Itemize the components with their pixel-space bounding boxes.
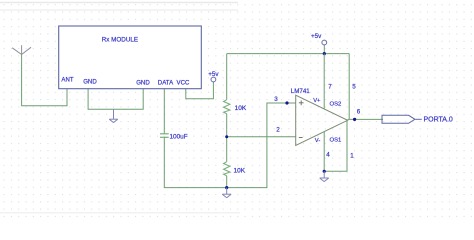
op-amp pin number 6: [357, 109, 361, 116]
wire pin 1 to ground: [324, 121, 347, 172]
svg-text:10K: 10K: [235, 105, 247, 112]
svg-text:3: 3: [274, 96, 278, 103]
svg-text:5: 5: [352, 83, 356, 90]
Rx MODULE receiver block: [59, 26, 202, 89]
wire R1 bottom to R2 top: [226, 114, 228, 162]
svg-text:6: 6: [357, 109, 361, 116]
resistor R1 value label 10K: [235, 105, 247, 112]
wire R2 bottom to ground rail: [226, 176, 228, 188]
wire +5V rail to pin 7: [323, 53, 325, 109]
svg-text:VCC: VCC: [177, 79, 190, 86]
power terminal +5v (op-amp rail): [311, 33, 327, 54]
op-amp pin number 5: [352, 83, 356, 90]
svg-text:Rx MODULE: Rx MODULE: [102, 36, 138, 43]
svg-text:7: 7: [328, 83, 332, 90]
resistor R1 10K body: [224, 100, 230, 114]
svg-text:V-: V-: [315, 138, 321, 144]
op-amp pin number 7: [328, 83, 332, 90]
svg-text:+5v: +5v: [208, 71, 219, 78]
terminal PORTA.0: [382, 115, 453, 123]
antenna AE1: [12, 45, 31, 54]
resistor R2 10K body: [224, 162, 230, 176]
wire divider node to op-amp pin2: [227, 136, 296, 138]
op-amp U1 LM741 body: [291, 88, 348, 145]
svg-text:4: 4: [326, 152, 330, 159]
capacitor C1 value label 100uF: [170, 133, 188, 140]
node: +5V rail junction dot: [323, 52, 326, 55]
svg-text:+5v: +5v: [311, 33, 322, 40]
svg-text:DATA: DATA: [158, 79, 174, 86]
svg-text:LM741: LM741: [291, 88, 310, 95]
wire +5V rail to pin 5: [348, 54, 350, 120]
svg-text:V+: V+: [313, 98, 321, 104]
wire pin 4 to ground: [323, 132, 325, 172]
svg-text:GND: GND: [136, 79, 150, 86]
wire antenna to ANT pin: [22, 55, 67, 106]
wire capacitor bottom to ground rail to op-amp pin3: [164, 103, 295, 188]
svg-text:10K: 10K: [234, 167, 246, 174]
svg-text:2: 2: [276, 126, 280, 133]
wire op-amp output pin 6: [348, 118, 383, 120]
node: op-amp ground junction dot: [323, 170, 326, 173]
node: pin3 junction dot: [285, 101, 288, 104]
wire DATA pin down to capacitor: [163, 89, 165, 134]
svg-text:PORTA.0: PORTA.0: [424, 117, 453, 124]
wire GND1 to GND2 rail: [88, 89, 143, 110]
svg-text:100uF: 100uF: [170, 133, 188, 140]
ground symbol (op-amp): [320, 171, 329, 181]
svg-text:OS2: OS2: [330, 101, 342, 107]
node: ground rail junction dot: [225, 186, 228, 189]
op-amp pin number 1: [350, 152, 354, 159]
op-amp pin number 2: [276, 126, 280, 133]
node: divider junction dot: [225, 135, 228, 138]
resistor R1 10K top lead wire: [226, 54, 228, 100]
svg-text:1: 1: [350, 152, 354, 159]
capacitor C1 plates: [160, 134, 169, 138]
svg-text:ANT: ANT: [61, 76, 73, 83]
resistor R2 value label 10K: [234, 167, 246, 174]
op-amp pin number 4: [326, 152, 330, 159]
node: output junction dot: [353, 118, 356, 121]
ground symbol (divider): [222, 188, 231, 198]
wire VCC pin to +5v terminal: [186, 82, 214, 99]
power terminal +5v (Rx module VCC): [208, 71, 219, 82]
ground symbol (Rx module): [109, 109, 117, 122]
svg-text:GND: GND: [83, 79, 97, 86]
svg-text:OS1: OS1: [330, 137, 342, 143]
+5V rail wire: [227, 53, 350, 55]
op-amp pin number 3: [274, 96, 278, 103]
